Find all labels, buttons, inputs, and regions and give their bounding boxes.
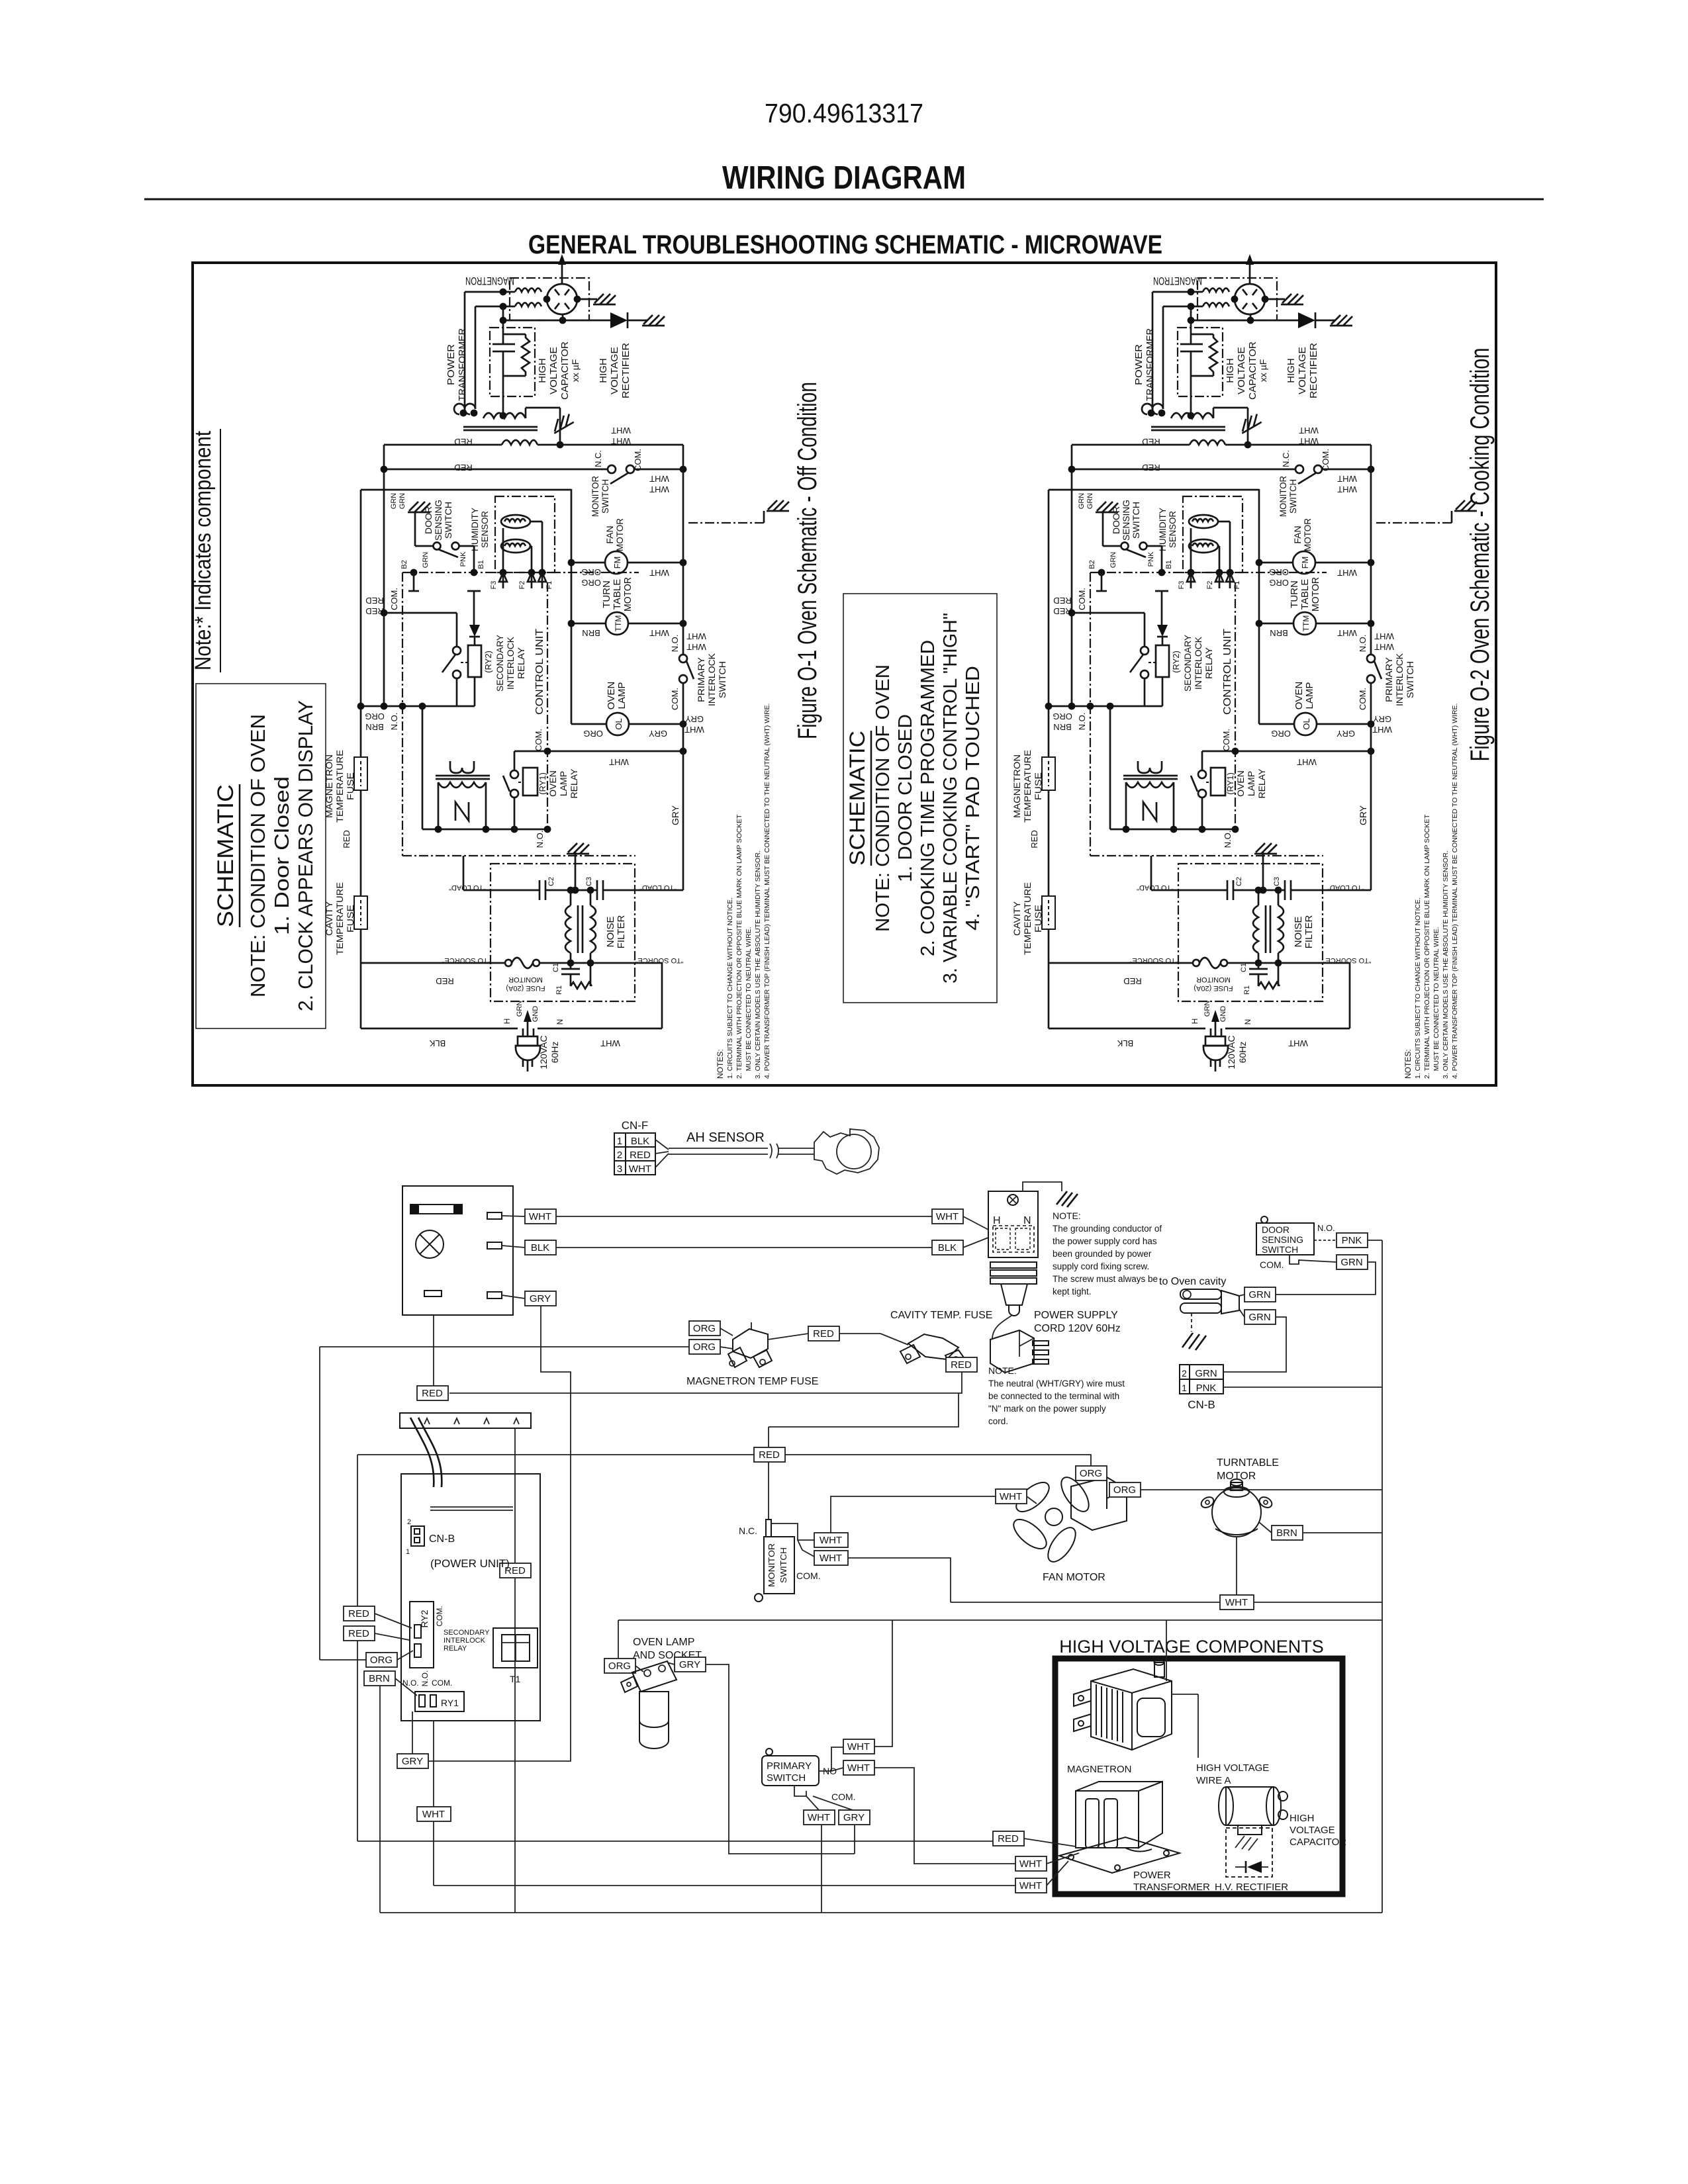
red feed wire vertical (514, 1428, 516, 1563)
svg-text:RED: RED (348, 1628, 369, 1639)
schematic instance 1 (324, 254, 789, 1079)
svg-text:2. COOKING TIME PROGRAMMED: 2. COOKING TIME PROGRAMMED (917, 640, 939, 956)
svg-text:RED: RED (998, 1833, 1019, 1844)
high voltage components enclosure (1055, 1659, 1342, 1894)
svg-text:N.C.: N.C. (739, 1525, 757, 1536)
svg-text:N.O.: N.O. (420, 1670, 430, 1687)
control panel unit (402, 1186, 513, 1315)
power unit box (401, 1474, 540, 1721)
connector CN-F pin table (614, 1133, 655, 1175)
connector CN-B pin table (1180, 1365, 1223, 1394)
svg-text:PNK: PNK (1196, 1383, 1217, 1394)
hv rectifier (1226, 1828, 1272, 1877)
svg-text:1: 1 (406, 1548, 410, 1556)
red link boxes (808, 1326, 839, 1341)
svg-text:RED: RED (951, 1359, 972, 1371)
svg-text:SENSING: SENSING (1262, 1234, 1303, 1245)
svg-text:WHT: WHT (847, 1762, 870, 1774)
svg-text:VOLTAGE: VOLTAGE (1289, 1825, 1335, 1836)
wire label RED (mid feed) (500, 1563, 531, 1578)
svg-text:WHT: WHT (808, 1812, 830, 1823)
red wire from power unit to transformer (357, 1841, 993, 1842)
gray wire down from panel (429, 1306, 571, 1761)
relay RY2 in power unit (410, 1602, 434, 1668)
svg-text:WHT: WHT (936, 1211, 959, 1222)
wire label GRY (power unit) (397, 1754, 428, 1768)
red return line (449, 1372, 962, 1393)
svg-text:FAN MOTOR: FAN MOTOR (1043, 1572, 1105, 1583)
svg-text:WIRING DIAGRAM: WIRING DIAGRAM (722, 160, 966, 196)
high voltage capacitor (pictorial) (1219, 1787, 1288, 1835)
svg-text:WIRE A: WIRE A (1196, 1775, 1231, 1786)
svg-text:GRY: GRY (679, 1659, 700, 1670)
brown wire to right bus (1303, 1532, 1382, 1533)
svg-text:SCHEMATIC: SCHEMATIC (213, 784, 238, 927)
svg-text:WHT: WHT (529, 1211, 551, 1222)
schematic note box 2 (843, 594, 997, 1003)
svg-text:GRN: GRN (1195, 1368, 1217, 1379)
magnetron temp fuse labels (689, 1321, 720, 1336)
svg-text:"N" mark on the power supply: "N" mark on the power supply (988, 1404, 1106, 1414)
magnetron (pictorial) (1074, 1660, 1172, 1750)
svg-text:PNK: PNK (1342, 1235, 1362, 1246)
svg-text:DOOR: DOOR (1262, 1224, 1289, 1235)
primary switch NO wires (819, 1747, 843, 1771)
white wire from monitor switch to neutral line (848, 1558, 951, 1602)
svg-text:RED: RED (348, 1608, 369, 1619)
white neutral distribution line (951, 1602, 1220, 1603)
white wires from primary switch to distribution (874, 1620, 892, 1747)
bottom distribution line (380, 1912, 1382, 1913)
svg-text:supply cord fixing screw.: supply cord fixing screw. (1053, 1261, 1149, 1271)
svg-text:TRANSFORMER: TRANSFORMER (1133, 1882, 1210, 1893)
pink wire from door sensing switch to CN-B pin 1 (1368, 1240, 1382, 1241)
svg-text:N: N (1023, 1215, 1031, 1226)
svg-text:CN-B: CN-B (1188, 1398, 1215, 1411)
svg-text:GRY: GRY (530, 1293, 551, 1304)
wire labels WHT (monitor switch) (814, 1533, 848, 1547)
primary switch COM wires down (821, 1825, 822, 1913)
outer schematic box (193, 263, 1496, 1085)
schematic instance 2 (cooking condition) (1011, 254, 1477, 1079)
svg-text:CORD 120V 60Hz: CORD 120V 60Hz (1034, 1323, 1121, 1334)
wire labels WHT GRY (primary switch COM) (804, 1810, 835, 1825)
svg-text:COM.: COM. (796, 1570, 821, 1581)
svg-text:ORG: ORG (1080, 1468, 1102, 1479)
svg-text:The screw must always be: The screw must always be (1053, 1274, 1158, 1284)
svg-text:GENERAL TROUBLESHOOTING SCHEMA: GENERAL TROUBLESHOOTING SCHEMATIC - MICR… (528, 230, 1162, 259)
svg-text:GRY: GRY (843, 1812, 865, 1823)
svg-text:NOTE:: NOTE: (988, 1365, 1017, 1376)
svg-text:ORG: ORG (608, 1661, 631, 1672)
svg-text:HIGH: HIGH (1289, 1813, 1315, 1824)
transformer T1 (493, 1628, 538, 1668)
high voltage wire A (1172, 1694, 1198, 1695)
svg-text:RY1: RY1 (441, 1698, 459, 1708)
svg-text:2: 2 (1182, 1368, 1187, 1379)
svg-text:be connected to the terminal w: be connected to the terminal with (988, 1391, 1119, 1401)
svg-text:COM.: COM. (432, 1678, 452, 1688)
svg-text:1. DOOR CLOSED: 1. DOOR CLOSED (895, 714, 916, 882)
svg-text:WHT: WHT (820, 1535, 842, 1546)
svg-text:1: 1 (617, 1136, 622, 1147)
note: indicates component (rotated) (191, 429, 220, 672)
panel wire labels (525, 1209, 556, 1224)
svg-text:NOTE:: NOTE: (1053, 1210, 1081, 1221)
AH sensor cable (655, 1140, 669, 1150)
svg-text:WHT: WHT (422, 1809, 445, 1820)
svg-text:CAVITY TEMP. FUSE: CAVITY TEMP. FUSE (890, 1310, 992, 1321)
svg-text:WHT: WHT (1019, 1858, 1042, 1870)
long distribution line (618, 1619, 1382, 1621)
white wire to transformer (434, 1885, 1015, 1886)
svg-text:WHT: WHT (1225, 1597, 1248, 1608)
monitor switch (pictorial) (754, 1447, 785, 1462)
svg-text:Figure O-2 Oven Schematic - Co: Figure O-2 Oven Schematic - Cooking Cond… (1466, 348, 1495, 762)
svg-text:NOTE: CONDITION OF OVEN: NOTE: CONDITION OF OVEN (246, 714, 269, 997)
wire label WHT (turntable neutral) (1220, 1595, 1254, 1610)
svg-text:COM.: COM. (435, 1606, 444, 1626)
svg-text:SECONDARY: SECONDARY (444, 1629, 490, 1637)
wire labels RED RED ORG BRN (power unit) (344, 1606, 375, 1621)
svg-text:3: 3 (617, 1163, 622, 1175)
green wire from lug to CN-B pin 2 (1223, 1317, 1286, 1372)
svg-text:WHT: WHT (1019, 1880, 1042, 1891)
svg-text:MONITOR: MONITOR (767, 1543, 776, 1587)
svg-text:CAPACITOR: CAPACITOR (1289, 1837, 1346, 1848)
terminal strip (400, 1413, 531, 1428)
schematic note box 1 (196, 684, 326, 1028)
svg-text:2. CLOCK APPEARS ON DISPLAY: 2. CLOCK APPEARS ON DISPLAY (294, 700, 317, 1011)
fan motor (1009, 1473, 1127, 1566)
svg-text:1: 1 (1182, 1383, 1187, 1393)
svg-text:HIGH VOLTAGE: HIGH VOLTAGE (1196, 1762, 1269, 1774)
svg-text:4. "START" PAD TOUCHED: 4. "START" PAD TOUCHED (962, 666, 984, 931)
svg-text:GRN: GRN (1248, 1312, 1270, 1323)
svg-text:WHT: WHT (1000, 1491, 1022, 1502)
svg-text:RELAY: RELAY (444, 1645, 467, 1653)
svg-text:Figure O-1 Oven Schematic - Of: Figure O-1 Oven Schematic - Off Conditio… (793, 382, 822, 739)
white wire from fan motor to monitor switch (831, 1496, 996, 1533)
svg-text:ORG: ORG (370, 1655, 393, 1666)
orange wire to right bus (1141, 1489, 1382, 1490)
svg-text:The neutral (WHT/GRY) wire mus: The neutral (WHT/GRY) wire must (988, 1379, 1125, 1388)
svg-text:MOTOR: MOTOR (1217, 1471, 1256, 1482)
wire label WHT (fan motor) (996, 1489, 1027, 1504)
hv feed drop (1166, 1620, 1167, 1681)
svg-text:POWER SUPPLY: POWER SUPPLY (1034, 1310, 1118, 1321)
svg-text:BLK: BLK (631, 1136, 649, 1147)
svg-text:H: H (993, 1215, 1001, 1226)
svg-text:the power supply cord has: the power supply cord has (1053, 1236, 1157, 1246)
svg-text:to Oven cavity: to Oven cavity (1159, 1276, 1226, 1287)
door sensing switch (pictorial) (1256, 1223, 1314, 1255)
svg-text:790.49613317: 790.49613317 (765, 98, 923, 128)
wire labels WHT (transformer primary) (1015, 1856, 1047, 1871)
orange wire from fan motor to power unit (357, 1455, 1091, 1466)
svg-text:WHT: WHT (847, 1741, 870, 1752)
svg-text:ORG: ORG (693, 1342, 716, 1353)
wire labels WHT (primary switch NO) (843, 1739, 874, 1754)
svg-text:WHT: WHT (629, 1163, 651, 1175)
svg-text:RED: RED (759, 1449, 780, 1461)
svg-text:INTERLOCK: INTERLOCK (444, 1637, 486, 1645)
AH sensor body (814, 1129, 879, 1174)
svg-text:CN-B: CN-B (429, 1533, 455, 1545)
svg-text:POWER: POWER (1133, 1870, 1171, 1881)
svg-text:ORG: ORG (1113, 1484, 1136, 1496)
svg-text:RED: RED (422, 1388, 443, 1399)
wire label BRN (turntable motor) (1272, 1525, 1303, 1540)
svg-text:MAGNETRON TEMP FUSE: MAGNETRON TEMP FUSE (686, 1376, 818, 1387)
svg-text:(POWER UNIT): (POWER UNIT) (430, 1557, 510, 1570)
power transformer (pictorial) (1059, 1782, 1180, 1873)
svg-text:SWITCH: SWITCH (778, 1547, 788, 1583)
svg-text:RED: RED (813, 1328, 834, 1340)
svg-text:BRN: BRN (369, 1673, 390, 1684)
long supply wires (556, 1216, 932, 1217)
svg-text:GRN: GRN (1340, 1257, 1362, 1268)
svg-text:COM.: COM. (831, 1792, 856, 1802)
svg-text:CN-F: CN-F (622, 1119, 649, 1132)
wire label WHT (power unit) (417, 1807, 451, 1821)
svg-text:T1: T1 (510, 1674, 521, 1684)
svg-text:GRY: GRY (402, 1756, 423, 1767)
svg-text:been grounded by power: been grounded by power (1053, 1249, 1152, 1259)
svg-text:cord.: cord. (988, 1416, 1008, 1426)
turntable motor neutral wire (1236, 1537, 1237, 1595)
primary switch (762, 1756, 819, 1786)
svg-text:HIGH VOLTAGE COMPONENTS: HIGH VOLTAGE COMPONENTS (1059, 1637, 1324, 1657)
svg-text:TURNTABLE: TURNTABLE (1217, 1457, 1279, 1469)
green wire from door sensing switch to cavity lug (1276, 1262, 1376, 1295)
feed line to org (320, 1346, 689, 1347)
svg-text:COM.: COM. (1260, 1259, 1284, 1270)
svg-text:The grounding conductor of: The grounding conductor of (1053, 1224, 1162, 1234)
header rule (144, 199, 1544, 201)
svg-text:MAGNETRON: MAGNETRON (1067, 1764, 1132, 1775)
svg-text:SWITCH: SWITCH (1262, 1244, 1298, 1255)
chassis ground below cavity lug (1191, 1313, 1192, 1332)
wire labels ORG (fan motor) (1076, 1466, 1107, 1480)
svg-text:kept tight.: kept tight. (1053, 1287, 1092, 1297)
power supply cord block (988, 1191, 1038, 1257)
svg-text:3. VARIABLE COOKING CONTROL "H: 3. VARIABLE COOKING CONTROL "HIGH" (940, 613, 961, 983)
svg-text:Note:* Indicates component: Note:* Indicates component (191, 431, 216, 670)
magnetron temp fuse (733, 1329, 768, 1358)
svg-text:H.V. RECTIFIER: H.V. RECTIFIER (1215, 1882, 1288, 1893)
wire label RED (transformer primary) (993, 1831, 1024, 1846)
svg-text:2: 2 (617, 1150, 622, 1161)
svg-text:NOTE: CONDITION OF OVEN: NOTE: CONDITION OF OVEN (872, 664, 894, 932)
svg-text:AH SENSOR: AH SENSOR (686, 1130, 765, 1145)
svg-text:BLK: BLK (938, 1242, 957, 1253)
svg-text:GRN: GRN (1248, 1289, 1270, 1300)
svg-text:2: 2 (407, 1518, 411, 1526)
cord plug (992, 1316, 1011, 1338)
svg-text:SCHEMATIC: SCHEMATIC (845, 731, 869, 866)
svg-text:ORG: ORG (693, 1323, 716, 1334)
svg-text:N.O.: N.O. (1317, 1223, 1335, 1233)
svg-text:1. Door Closed: 1. Door Closed (270, 776, 293, 935)
svg-text:BLK: BLK (531, 1242, 549, 1253)
cord ground wire (1023, 1182, 1062, 1191)
svg-text:OVEN LAMP: OVEN LAMP (633, 1637, 694, 1648)
svg-text:WHT: WHT (820, 1553, 842, 1564)
svg-text:BRN: BRN (1276, 1527, 1297, 1539)
svg-text:PRIMARY: PRIMARY (767, 1760, 812, 1772)
svg-text:SWITCH: SWITCH (767, 1772, 806, 1784)
svg-text:RED: RED (630, 1150, 651, 1161)
